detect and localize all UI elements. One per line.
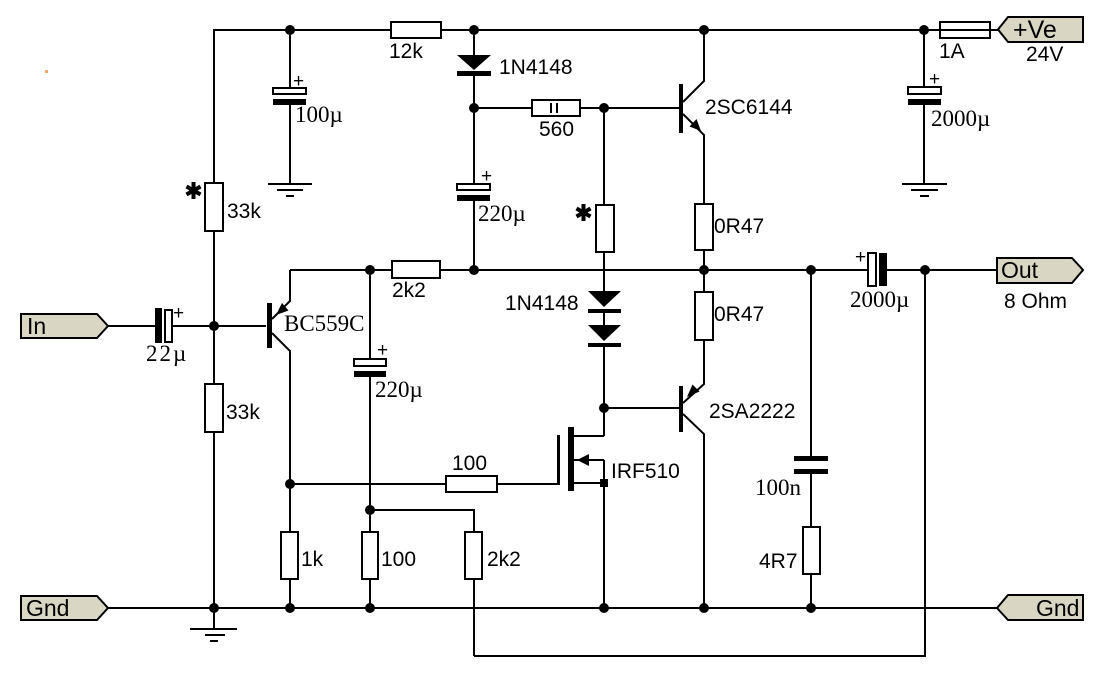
svg-text:+: + bbox=[481, 166, 492, 187]
svg-text:12k: 12k bbox=[389, 40, 423, 63]
svg-text:33k: 33k bbox=[226, 401, 260, 424]
resistor 0R47 upper bbox=[695, 204, 713, 250]
fuse 1A bbox=[940, 22, 990, 38]
resistor 33k lower bbox=[205, 384, 223, 432]
svg-text:22µ: 22µ bbox=[146, 341, 188, 366]
svg-text:2000µ: 2000µ bbox=[850, 287, 909, 312]
capacitor C 100n zobel bbox=[810, 270, 812, 456]
svg-text:Gnd: Gnd bbox=[26, 595, 69, 621]
svg-text:In: In bbox=[27, 313, 46, 339]
wire gate resistor to gate bbox=[497, 483, 557, 485]
diode D2 1N4148 bbox=[588, 291, 621, 307]
wire diodes to drain node bbox=[603, 313, 605, 325]
resistor bias (*) bbox=[603, 108, 605, 205]
ground flag Gnd left bbox=[21, 596, 108, 620]
wire node to feedback 2k2 bbox=[370, 510, 474, 532]
capacitor C 220µ lower bbox=[369, 270, 371, 359]
svg-text:+Ve: +Ve bbox=[1013, 16, 1057, 44]
resistor 33k upper bbox=[205, 183, 223, 231]
stray orange pixel artifact bbox=[45, 70, 48, 73]
transistor Q3 2SA2222 bbox=[679, 386, 683, 432]
svg-text:24V: 24V bbox=[1026, 43, 1063, 66]
ground symbol bottom left bbox=[213, 608, 215, 629]
svg-text:BC559C: BC559C bbox=[284, 311, 365, 336]
asterisk mark near bias resistor bbox=[577, 204, 591, 221]
wire emitter rail to 2k2 bbox=[290, 269, 392, 271]
resistor 2k2 feedback bbox=[392, 261, 440, 278]
svg-text:IRF510: IRF510 bbox=[611, 460, 680, 483]
capacitor C 220µ upper bbox=[473, 108, 475, 184]
svg-text:220µ: 220µ bbox=[375, 377, 423, 402]
feedback wire Out to 2k2 bbox=[474, 270, 925, 656]
wire output rail bbox=[704, 269, 868, 271]
wire top rail fuse to flag bbox=[990, 29, 999, 31]
ground under supply cap bbox=[902, 184, 947, 196]
svg-text:Out: Out bbox=[1001, 257, 1039, 283]
wire collector rail to gate resistor bbox=[290, 483, 446, 485]
svg-text:+: + bbox=[377, 340, 388, 361]
svg-text:+: + bbox=[929, 69, 940, 90]
svg-text:1A: 1A bbox=[939, 40, 965, 63]
resistor 4R7 zobel bbox=[803, 527, 820, 574]
capacitor C 22µ bbox=[155, 308, 162, 343]
fusible resistor 560 bbox=[532, 100, 580, 116]
wire 560 to 2SC base bbox=[580, 107, 679, 109]
diode D1 1N4148 bbox=[473, 30, 475, 55]
resistor 12k bbox=[391, 22, 441, 38]
wire 2k2 to feedback line bbox=[473, 579, 475, 656]
wire node to output rail bbox=[474, 269, 704, 271]
capacitor C 2000µ output bbox=[868, 253, 876, 286]
svg-text:8 Ohm: 8 Ohm bbox=[1004, 290, 1067, 313]
MOSFET IRF510 bbox=[603, 408, 605, 436]
output flag Out bbox=[997, 258, 1083, 283]
wire base node to 2SA2222 bbox=[604, 407, 679, 409]
input flag In bbox=[21, 314, 108, 338]
svg-text:33k: 33k bbox=[227, 200, 261, 223]
wire ground rail bbox=[108, 607, 997, 609]
svg-text:100µ: 100µ bbox=[295, 102, 343, 127]
svg-text:100: 100 bbox=[452, 452, 487, 475]
svg-text:2000µ: 2000µ bbox=[931, 106, 990, 131]
svg-text:4R7: 4R7 bbox=[759, 550, 798, 573]
resistor 2k2 shunt bbox=[465, 532, 482, 579]
svg-text:2k2: 2k2 bbox=[392, 279, 426, 302]
svg-text:1k: 1k bbox=[301, 548, 324, 571]
ground under 100µ bbox=[268, 184, 312, 196]
asterisk mark near 33k bbox=[187, 182, 201, 199]
capacitor C 100µ bbox=[289, 30, 291, 88]
wire cap to Out flag bbox=[887, 269, 997, 271]
svg-text:2k2: 2k2 bbox=[487, 548, 521, 571]
wire 33k lower to ground rail bbox=[213, 432, 215, 608]
power flag +Ve bbox=[998, 17, 1083, 42]
resistor 1k bbox=[281, 532, 298, 579]
svg-text:2SC6144: 2SC6144 bbox=[705, 96, 793, 119]
svg-text:+: + bbox=[293, 71, 304, 92]
resistor 100 emitter bbox=[362, 532, 378, 579]
resistor 100 gate bbox=[446, 476, 497, 492]
svg-text:1N4148: 1N4148 bbox=[499, 56, 573, 79]
resistor 0R47 lower bbox=[703, 270, 705, 292]
diode D3 1N4148 bbox=[588, 325, 621, 341]
wire collector node down to 1k bbox=[289, 484, 291, 532]
transistor Q1 BC559C bbox=[267, 303, 272, 348]
capacitor C 2000µ supply bbox=[923, 30, 925, 87]
wire 33k to input node bbox=[213, 231, 215, 384]
wire In to 22µ bbox=[108, 325, 155, 327]
ground flag Gnd right bbox=[997, 595, 1083, 620]
wire 2k2 to node bbox=[440, 269, 474, 271]
svg-text:0R47: 0R47 bbox=[714, 215, 764, 238]
svg-text:+: + bbox=[173, 303, 184, 324]
svg-text:0R47: 0R47 bbox=[714, 303, 764, 326]
wire 22µ to base node bbox=[172, 325, 266, 327]
svg-text:Gnd: Gnd bbox=[1036, 595, 1079, 621]
svg-text:560: 560 bbox=[539, 118, 574, 141]
svg-text:1N4148: 1N4148 bbox=[505, 292, 579, 315]
transistor Q2 2SC6144 bbox=[679, 84, 683, 133]
svg-text:2SA2222: 2SA2222 bbox=[709, 400, 795, 423]
svg-text:+: + bbox=[855, 247, 866, 268]
wire node to 560 bbox=[474, 107, 532, 109]
wire top +Ve rail bbox=[214, 30, 940, 183]
svg-text:220µ: 220µ bbox=[478, 201, 526, 226]
svg-text:100: 100 bbox=[381, 548, 416, 571]
svg-text:100n: 100n bbox=[755, 475, 802, 500]
